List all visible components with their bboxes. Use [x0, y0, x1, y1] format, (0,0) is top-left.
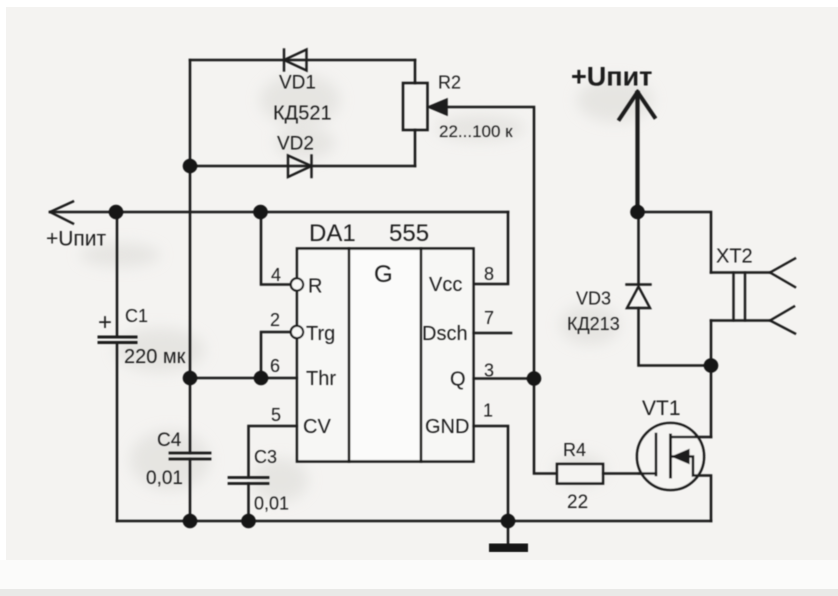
capacitor C3: [229, 478, 268, 484]
svg-text:3: 3: [484, 361, 494, 381]
wire pin7 Dsch stub: [474, 332, 512, 335]
transistor Q2 : VT1 MOSFET envelope: [637, 423, 704, 490]
node Thr-left: [183, 371, 198, 386]
svg-text:C4: C4: [157, 430, 182, 451]
wire ground stem: [507, 521, 510, 544]
pin bubble Trg (pin2): [291, 326, 303, 338]
pin bubble R (pin4): [291, 278, 303, 290]
svg-text:Vcc: Vcc: [429, 274, 462, 296]
XT2 body bars: [732, 273, 734, 321]
wire ground rail (y=521): [117, 520, 711, 523]
node +U right: [630, 205, 645, 220]
svg-text:Trg: Trg: [306, 323, 335, 345]
svg-text:R: R: [308, 276, 322, 298]
VT1 gate electrode: [655, 434, 658, 475]
node ground-main: [501, 514, 516, 529]
capacitor C4: [170, 453, 210, 459]
svg-text:4: 4: [271, 265, 281, 285]
XT2 lower contact: [711, 319, 770, 322]
wire top loop (VD1 line): [190, 59, 415, 62]
wire XT2 lower to drain junction: [710, 321, 713, 366]
node ground-C3: [241, 514, 256, 529]
wire C1 branch vertical: [116, 212, 119, 337]
wire pin5 CV net: [249, 426, 298, 478]
svg-text:R2: R2: [438, 73, 461, 93]
svg-text:VT1: VT1: [642, 397, 681, 420]
svg-text:220 мк: 220 мк: [124, 346, 186, 368]
svg-text:VD1: VD1: [279, 73, 316, 94]
R2 wiper arrow: [428, 99, 447, 115]
ground: [489, 544, 528, 553]
svg-text:0,01: 0,01: [146, 468, 183, 489]
power symbol +Uпит right: thick stem: [635, 93, 639, 212]
resistor R2 (trimmer) body: [403, 83, 428, 130]
svg-text:GND: GND: [425, 416, 469, 438]
diode VD1: [284, 50, 307, 71]
wire C4 lower lead: [189, 459, 192, 521]
svg-text:C1: C1: [125, 306, 148, 326]
svg-text:7: 7: [484, 308, 494, 328]
wire R4 to gate: [603, 472, 656, 475]
capacitor C1: [99, 337, 136, 343]
node Q output: [527, 371, 542, 386]
svg-text:Thr: Thr: [306, 368, 336, 390]
wire pin1 GND net: [474, 426, 509, 521]
svg-text:22: 22: [567, 492, 588, 513]
resistor R4 body: [557, 464, 603, 484]
power arrow +Uпит left: [50, 202, 73, 224]
wire pin2 trigger net: [261, 332, 291, 378]
svg-text:555: 555: [389, 220, 429, 247]
svg-text:R4: R4: [563, 440, 586, 460]
node rail-pin4: [253, 205, 268, 220]
diode VD2: [288, 156, 312, 178]
wire Vcc pin8 riser: [474, 212, 509, 284]
VT1 gate lead inside: [639, 472, 656, 475]
node VD2 junction: [183, 159, 198, 174]
svg-text:2: 2: [270, 310, 280, 330]
wire pin4 reset net: [261, 212, 291, 285]
diode VD3 top lead: [637, 212, 640, 285]
wire pin6 threshold net: [190, 377, 297, 380]
XT2 upper fork: [770, 259, 795, 288]
node Thr-Trg: [254, 371, 269, 386]
svg-text:6: 6: [270, 356, 280, 376]
wire pin3 Q output: [474, 377, 535, 380]
connector XT2 upper contact: [711, 271, 770, 274]
svg-text:КД213: КД213: [567, 314, 620, 334]
svg-text:G: G: [374, 261, 393, 288]
VT1 channel bar: [669, 435, 672, 477]
svg-text:5: 5: [271, 405, 281, 425]
wire R2 bottom lead: [414, 130, 417, 166]
wire drain riser: [710, 366, 713, 438]
svg-text:+Uпит: +Uпит: [571, 62, 652, 92]
wire C1 to ground rail: [116, 343, 119, 522]
svg-text:0,01: 0,01: [254, 494, 289, 514]
svg-text:XT2: XT2: [716, 246, 753, 268]
node VD3-drain: [704, 358, 719, 373]
svg-text:VD3: VD3: [576, 289, 611, 309]
svg-text:+: +: [98, 309, 112, 336]
IC inner divider left: [348, 249, 351, 462]
wire C3 lower lead: [247, 484, 250, 522]
op-amp U1 : IC DA1 555 body: [297, 249, 474, 462]
node rail-C1: [109, 205, 124, 220]
wire diode branch vertical (x=190): [189, 60, 192, 378]
VT1 drain lead: [671, 436, 712, 439]
svg-text:Q: Q: [450, 369, 466, 391]
svg-text:C3: C3: [254, 447, 277, 467]
svg-text:VD2: VD2: [277, 134, 314, 155]
wire +U supply rail (y=212): [50, 211, 508, 214]
svg-text:+Uпит: +Uпит: [46, 228, 107, 251]
wire C4 upper lead: [189, 378, 192, 453]
svg-text:1: 1: [483, 401, 493, 421]
svg-text:Dsch: Dsch: [422, 323, 468, 345]
svg-text:CV: CV: [303, 416, 331, 438]
wire VD2 line: [190, 165, 415, 168]
power arrow head right: [620, 92, 655, 119]
XT2 lower fork: [770, 307, 795, 334]
wire +U to XT2: [638, 212, 712, 273]
VT1 source lead with arrow: [673, 457, 711, 522]
wire VD3 bottom lead: [639, 308, 712, 366]
wire R2 wiper to Q net: [446, 107, 534, 379]
svg-text:8: 8: [484, 264, 494, 284]
wire R2 top lead: [414, 60, 417, 83]
diode VD3: [627, 285, 651, 309]
svg-text:22...100 к: 22...100 к: [439, 122, 513, 141]
wire Q to R4: [534, 379, 557, 474]
svg-text:DA1: DA1: [309, 220, 356, 247]
svg-text:КД521: КД521: [273, 103, 332, 125]
node ground-C4: [183, 514, 198, 529]
IC inner divider right: [420, 249, 423, 462]
